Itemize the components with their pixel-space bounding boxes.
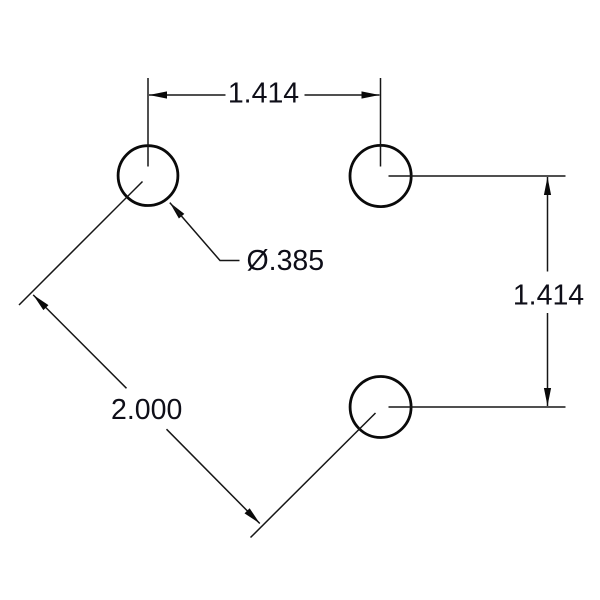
dimension line right segment (top 1.414)	[305, 94, 380, 96]
extension line from C2 up (top dimension)	[380, 78, 382, 167]
arrowhead right (top 1.414)	[362, 91, 380, 98]
dimension text 2.000 (diagonal)	[111, 394, 182, 426]
hole circle C1 (top-left)	[118, 146, 178, 206]
extension line from C3 down-left (diagonal dimension)	[251, 413, 376, 538]
svg-text:1.414: 1.414	[513, 280, 584, 312]
dimension line lower segment (diagonal 2.000)	[167, 429, 260, 523]
dimension line lower segment (right 1.414)	[547, 313, 549, 406]
leader line to diameter text	[170, 203, 240, 261]
svg-text:Ø.385: Ø.385	[247, 245, 325, 277]
dimension text 1.414 (right)	[513, 280, 584, 312]
dimension line left segment (top 1.414)	[149, 94, 226, 96]
hole circle C3 (bottom)	[350, 377, 411, 438]
arrowhead upper-left (diagonal 2.000)	[31, 292, 49, 310]
extension line from C1 up (top dimension)	[147, 78, 149, 167]
extension line from C3 right (right dimension)	[389, 406, 566, 408]
arrowhead left (top 1.414)	[149, 91, 167, 98]
svg-text:2.000: 2.000	[111, 394, 182, 426]
extension line from C2 right (right dimension)	[389, 175, 566, 177]
hole circle C2 (top-right)	[350, 145, 411, 206]
dimension text 1.414 (top)	[228, 77, 299, 109]
arrowhead down (right 1.414)	[544, 388, 551, 406]
arrowhead lower-right (diagonal 2.000)	[245, 508, 263, 526]
extension line from C1 down-left (diagonal dimension)	[19, 182, 143, 306]
leader arrowhead on C1 edge	[167, 200, 184, 218]
arrowhead up (right 1.414)	[544, 177, 551, 195]
svg-text:1.414: 1.414	[228, 77, 299, 109]
dimension line upper segment (right 1.414)	[547, 177, 549, 272]
diameter text Ø.385	[247, 245, 325, 277]
dimension line upper segment (diagonal 2.000)	[33, 295, 126, 388]
